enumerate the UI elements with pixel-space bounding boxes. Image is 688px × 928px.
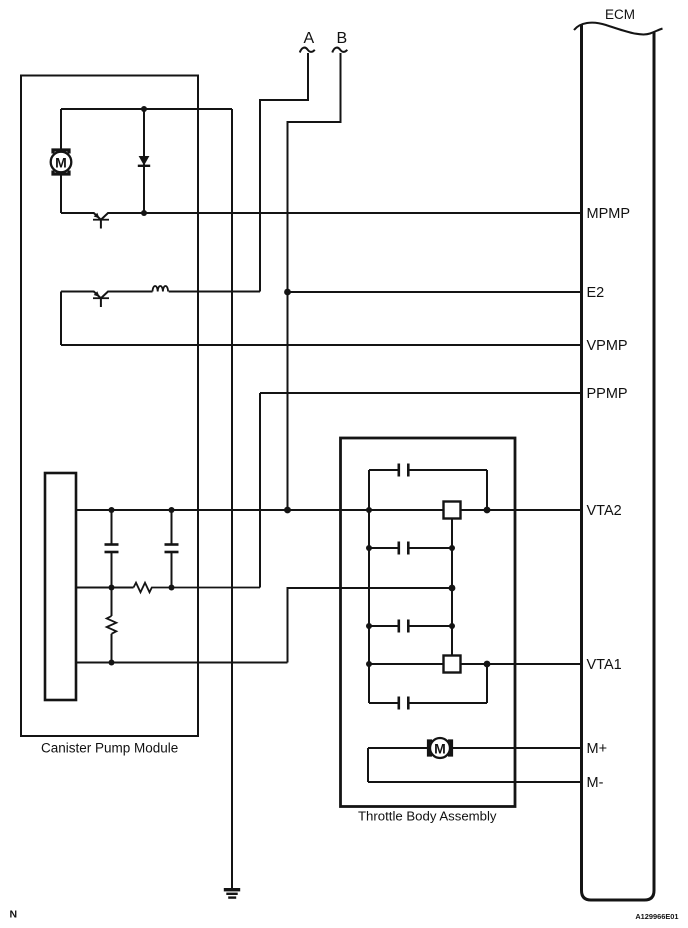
svg-text:A129966E01: A129966E01 (635, 912, 678, 921)
svg-text:VTA2: VTA2 (587, 503, 622, 519)
svg-text:M+: M+ (587, 741, 608, 757)
svg-text:Throttle Body Assembly: Throttle Body Assembly (358, 809, 497, 824)
svg-text:Canister Pump Module: Canister Pump Module (41, 741, 178, 756)
svg-text:M-: M- (587, 775, 604, 791)
svg-text:VPMP: VPMP (587, 338, 628, 354)
svg-text:N: N (10, 909, 18, 921)
svg-text:VTA1: VTA1 (587, 657, 622, 673)
svg-text:ECM: ECM (605, 7, 635, 22)
svg-text:MPMP: MPMP (587, 206, 631, 222)
svg-text:PPMP: PPMP (587, 386, 628, 402)
svg-text:B: B (337, 30, 348, 47)
svg-text:E2: E2 (587, 285, 605, 301)
svg-text:M: M (434, 740, 446, 756)
svg-text:M: M (55, 154, 67, 170)
svg-text:A: A (304, 30, 315, 47)
